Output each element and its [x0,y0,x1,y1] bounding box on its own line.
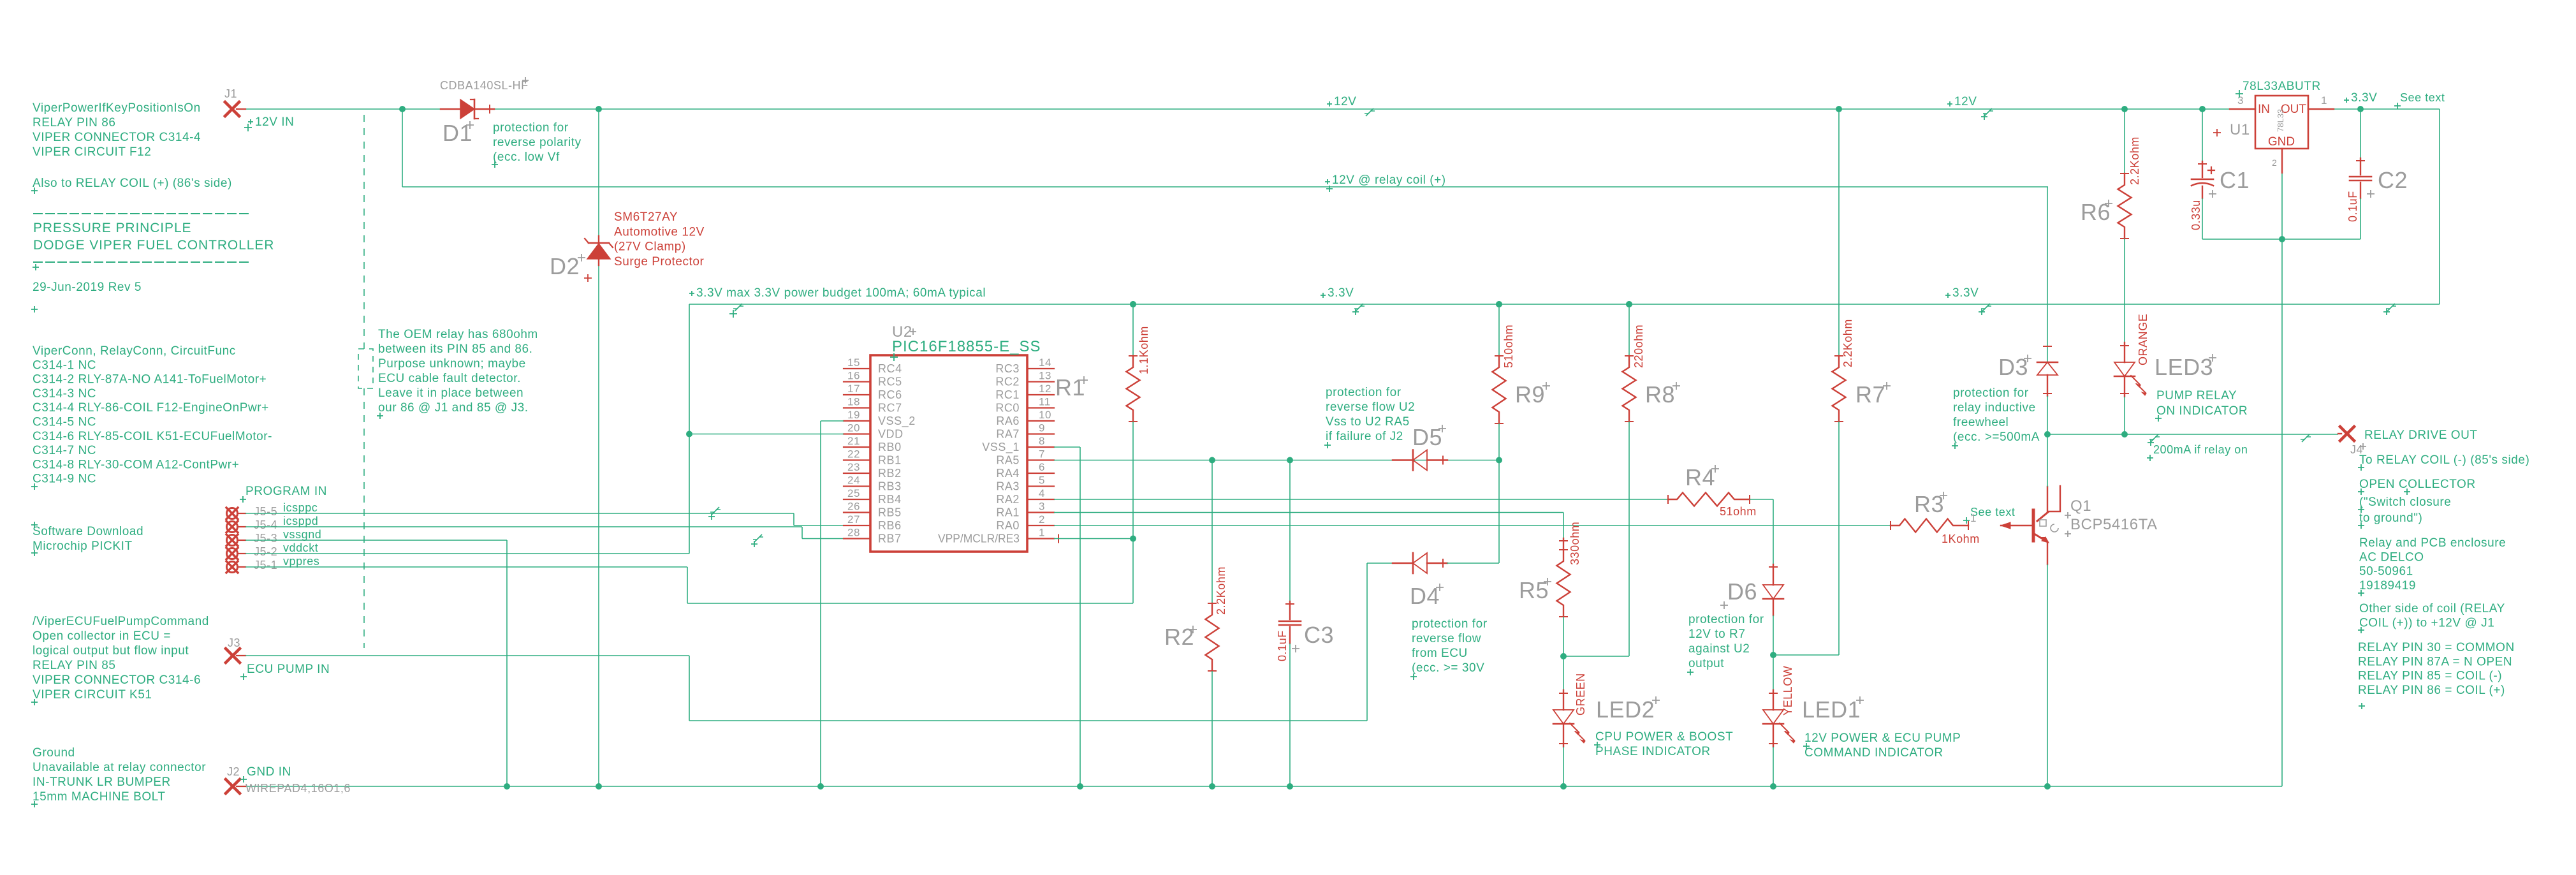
svg-text:icsppc: icsppc [283,501,318,514]
svg-text:protection for: protection for [1688,613,1764,626]
svg-text:RB2: RB2 [878,467,902,480]
svg-text:C314-2 RLY-87A-NO A141-ToFue: C314-2 RLY-87A-NO A141-ToFuelMotor+ [33,373,267,386]
svg-text:2.2Kohm: 2.2Kohm [1841,319,1854,367]
U2 pin 22 RB1 [844,459,870,460]
junction GND/VSS_1 [1077,783,1083,790]
svg-text:3.3V max 3.3V power budget 10: 3.3V max 3.3V power budget 100mA; 60mA t… [696,286,986,300]
svg-text:J5-2: J5-2 [254,545,277,558]
svg-text:2.2Kohm: 2.2Kohm [2128,136,2141,185]
net label 12V @ relay coil [1325,179,1330,184]
svg-text:0.33u: 0.33u [2190,200,2202,230]
net label 3.3V right [1945,293,1950,298]
junction MCLR/R1/vppres [1130,536,1136,542]
svg-text:D1: D1 [443,120,472,146]
junction GND/vssgnd [504,783,510,790]
wire VDD pin20 to 3.3V [689,434,844,435]
svg-text:25: 25 [847,487,860,499]
svg-text:50-50961: 50-50961 [2359,565,2413,578]
svg-text:8: 8 [1039,435,1045,447]
net label +12V left [1327,101,1332,107]
svg-text:C314-4 RLY-86-COIL F12-Engin: C314-4 RLY-86-COIL F12-EngineOnPwr+ [33,401,269,415]
svg-text:vssgnd: vssgnd [283,528,321,541]
svg-text:AC DELCO: AC DELCO [2359,550,2424,564]
svg-text:J5-4: J5-4 [254,518,277,531]
svg-text:(27V Clamp): (27V Clamp) [614,240,686,254]
svg-text:icsppd: icsppd [283,515,318,527]
svg-text:VPP/MCLR/RE3: VPP/MCLR/RE3 [938,533,1020,545]
junction 3.3V/R1 [1130,301,1136,307]
svg-text:D2: D2 [550,253,580,279]
svg-text:3.3V: 3.3V [1952,286,1979,300]
U2 pin 28 RB7 [844,538,870,539]
U2 pin 7 RA5 [1027,459,1054,460]
svg-text:13: 13 [1039,370,1051,382]
svg-text:LED2: LED2 [1596,696,1655,723]
capacitor C2 0.1uF [2360,109,2361,158]
svg-text:The OEM relay has 680ohm: The OEM relay has 680ohm [378,328,538,341]
svg-text:protection for: protection for [1326,386,1401,399]
junction GND/LED1 [1770,783,1776,790]
wire icsppd to RB7 pin28 [245,526,802,527]
svg-text:Microchip PICKIT: Microchip PICKIT [33,540,133,553]
wire RA1 pin3 to R5 [1054,512,1563,513]
IC U2 PIC16F18855 box [870,355,1027,552]
svg-text:OPEN COLLECTOR: OPEN COLLECTOR [2359,478,2476,491]
svg-text:330ohm: 330ohm [1569,522,1581,565]
svg-text:12: 12 [1039,383,1051,395]
junction 12V/R6 [2121,106,2128,112]
U2 pin 14 RC3 [1027,368,1054,369]
junction 3.3V/R8 [1626,301,1632,307]
svg-text:J5-3: J5-3 [254,532,277,545]
svg-text:reverse flow U2: reverse flow U2 [1326,401,1415,414]
svg-text:RC3: RC3 [995,362,1020,375]
svg-text:ON INDICATOR: ON INDICATOR [2156,404,2248,418]
junction 12V/D1 loop left [399,106,406,112]
resistor R5 330ohm [1563,538,1564,550]
svg-text:LED1: LED1 [1802,696,1861,723]
svg-text:PRESSURE PRINCIPLE: PRESSURE PRINCIPLE [33,221,191,235]
svg-text:R1: R1 [1055,374,1085,401]
svg-text:220ohm: 220ohm [1632,325,1645,368]
svg-text:PHASE INDICATOR: PHASE INDICATOR [1595,745,1711,758]
svg-text:Purpose unknown; maybe: Purpose unknown; maybe [378,357,526,371]
svg-text:12V: 12V [1334,95,1356,108]
svg-text:10: 10 [1039,409,1051,421]
svg-text:("Switch closure: ("Switch closure [2359,496,2451,509]
wire 12V-to-relay-coil bypass left drop [402,109,403,187]
connector pin J5-4 icsppd [227,522,238,533]
svg-text:22: 22 [847,448,860,460]
net label 3.3V far right jog [2386,304,2396,311]
svg-text:RC4: RC4 [878,362,902,375]
svg-text:12V: 12V [1954,95,1977,108]
svg-text:3: 3 [1039,501,1045,513]
connector pin J5-1 vppres [227,562,238,573]
resistor R1 1.1Kohm MCLR pullup [1132,304,1134,356]
svg-text:GREEN: GREEN [1574,673,1587,716]
svg-text:GND: GND [2268,135,2295,149]
diode D2 SM6T27AY TVS [598,236,599,243]
wire D1 bypass right drop [598,109,599,786]
svg-text:reverse flow: reverse flow [1412,632,1481,645]
LED LED2 green CPU power indicator [1563,656,1564,690]
svg-text:BCP5416TA: BCP5416TA [2070,516,2158,533]
U2 pin 6 RA4 [1027,473,1054,474]
net label +12V right [1947,101,1952,107]
svg-text:output: output [1688,657,1724,670]
svg-text:Other side of coil (RELAY: Other side of coil (RELAY [2359,602,2505,615]
svg-text:C314-9 NC: C314-9 NC [33,473,96,486]
svg-text:RA3: RA3 [996,480,1020,493]
svg-text:1.1Kohm: 1.1Kohm [1138,326,1150,374]
junction GND/D2 [596,783,602,790]
svg-text:protection for: protection for [1412,617,1488,631]
svg-text:(ecc. low Vf: (ecc. low Vf [493,151,560,164]
wire vddckt to 3.3V [245,553,689,554]
svg-text:Automotive 12V: Automotive 12V [614,225,705,239]
diode D5 reverse flow protection [1393,459,1413,460]
wire GND rail [245,786,2282,787]
svg-text:RELAY PIN 30 = COMMON: RELAY PIN 30 = COMMON [2358,641,2515,654]
svg-text:3.3V: 3.3V [2351,91,2377,105]
junction 12V/D2 [596,106,602,112]
svg-text:RA2: RA2 [996,493,1020,506]
junction LED1 anode node [1770,652,1776,658]
wire U1 GND drop [2281,173,2283,786]
svg-text:J2: J2 [227,765,240,778]
capacitor C1 0.33u polarized [2202,109,2203,161]
svg-text:12V @ relay coil (+): 12V @ relay coil (+) [1332,173,1446,187]
svg-text:DODGE VIPER FUEL CONTROLLER: DODGE VIPER FUEL CONTROLLER [33,238,274,253]
U2 pin 10 RA6 [1027,420,1054,422]
svg-text:R9: R9 [1515,381,1545,408]
svg-text:R2: R2 [1164,624,1194,650]
svg-text:CPU POWER & BOOST: CPU POWER & BOOST [1595,730,1733,744]
svg-text:J3: J3 [228,636,240,649]
svg-text:Q1: Q1 [2070,497,2091,515]
wire RA2 pin4 to R4 [1054,499,1668,500]
svg-text:1: 1 [1039,527,1045,539]
svg-text:vppres: vppres [283,555,319,568]
svg-text:To RELAY COIL (-) (85's side): To RELAY COIL (-) (85's side) [2359,453,2529,467]
svg-text:200mA if relay on: 200mA if relay on [2153,443,2248,456]
transistor Q1 BCP5416TA [2001,525,2032,526]
net label 3.3V mid [1321,293,1326,298]
connector J3 ECU PUMP IN [226,649,240,663]
resistor R3 1Kohm base resistor [1891,519,1968,533]
svg-text:to ground"): to ground") [2359,511,2422,525]
svg-text:VIPER CIRCUIT K51: VIPER CIRCUIT K51 [33,688,152,702]
svg-text:RB4: RB4 [878,493,902,506]
connector J2 GND IN [226,779,240,793]
svg-text:PIC16F18855-E_SS: PIC16F18855-E_SS [892,338,1041,355]
U2 pin 2 RA0 [1027,525,1054,526]
U2 pin 9 RA7 [1027,433,1054,434]
wire +12V rail [245,108,2230,110]
junction R9/D5 node [1496,457,1502,464]
svg-text:RELAY PIN 85: RELAY PIN 85 [33,659,116,672]
svg-text:RB7: RB7 [878,533,902,545]
svg-text:RC0: RC0 [995,402,1020,415]
svg-text:5: 5 [1039,474,1045,487]
svg-text:/ViperECUFuelPumpCommand: /ViperECUFuelPumpCommand [33,615,209,628]
diode D3 relay freewheel [2047,344,2048,362]
wire ECU pump net J3 to D4 [245,655,689,656]
dashed OEM relay line upper [363,115,365,349]
svg-text:VSS_1: VSS_1 [982,441,1020,454]
svg-text:2: 2 [2272,158,2277,168]
U2 pin 15 RC4 [844,368,870,369]
net label 3.3V at U1 out [2344,98,2349,103]
svg-text:ViperConn, RelayConn, CircuitF: ViperConn, RelayConn, CircuitFunc [33,344,236,358]
svg-text:between its PIN 85 and 86.: between its PIN 85 and 86. [378,342,532,356]
diode D1 CDBA140SL-HF schottky [441,108,460,110]
U2 pin 24 RB3 [844,485,870,487]
svg-text:RELAY PIN 86: RELAY PIN 86 [33,116,116,129]
wire 3.3V regulator output drop [2439,109,2440,304]
LED LED3 orange pump relay indicator [2124,342,2125,362]
svg-text:12V IN: 12V IN [255,115,294,129]
junction GND/C3 [1287,783,1293,790]
U2 pin 1 VPP/MCLR/RE3 [1027,538,1054,539]
svg-text:1: 1 [2321,94,2327,107]
svg-text:510ohm: 510ohm [1502,325,1515,368]
svg-text:vddckt: vddckt [283,541,318,554]
dashed OEM relay line lower [363,388,365,648]
U2 pin 20 VDD [844,433,870,434]
svg-text:21: 21 [847,435,860,447]
dashed OEM relay coil box [358,349,373,388]
U2 pin 11 RC0 [1027,407,1054,408]
svg-text:from ECU: from ECU [1412,647,1468,660]
svg-text:RB5: RB5 [878,506,902,519]
svg-text:20: 20 [847,422,860,434]
svg-text:D6: D6 [1727,578,1757,605]
svg-text:C1: C1 [2220,167,2250,193]
connector pin J5-5 icsppc [227,508,238,519]
svg-text:0.1uF: 0.1uF [2346,191,2359,222]
U2 pin 5 RA3 [1027,485,1054,487]
svg-text:16: 16 [847,370,860,382]
svg-text:RA4: RA4 [996,467,1020,480]
svg-text:0.1uF: 0.1uF [1276,630,1289,661]
diode D4 reverse flow from ECU [1367,562,1394,564]
svg-text:COMMAND INDICATOR: COMMAND INDICATOR [1804,746,1943,760]
svg-text:RC2: RC2 [995,376,1020,388]
svg-text:Leave it in place between: Leave it in place between [378,386,523,400]
note title separator bottom [33,261,249,263]
svg-text:RELAY DRIVE OUT: RELAY DRIVE OUT [2364,429,2478,442]
IC U1 78L33 regulator box [2255,96,2308,149]
svg-text:logical output but flow input: logical output but flow input [33,644,189,658]
svg-text:against U2: against U2 [1688,642,1750,656]
U1 pin 3 IN stub [2230,108,2255,110]
svg-text:IN: IN [2258,103,2270,116]
svg-text:RA6: RA6 [996,415,1020,427]
svg-text:protection for: protection for [1953,386,2029,400]
svg-text:PUMP RELAY: PUMP RELAY [2156,389,2237,402]
junction 12V/C1 [2199,106,2206,112]
wire +3.3V rail [689,304,2440,305]
svg-text:RB1: RB1 [878,454,902,467]
svg-text:RC7: RC7 [878,402,902,415]
svg-text:C314-8 RLY-30-COM A12-ContPw: C314-8 RLY-30-COM A12-ContPwr+ [33,458,239,471]
U2 pin 26 RB5 [844,511,870,513]
svg-text:PROGRAM IN: PROGRAM IN [245,485,327,498]
svg-text:ECU cable fault detector.: ECU cable fault detector. [378,372,521,385]
junction LED3/drive rail [2121,431,2128,437]
svg-text:RELAY PIN 85 = COIL (-): RELAY PIN 85 = COIL (-) [2358,670,2502,683]
U2 pin 8 VSS_1 [1027,446,1054,448]
junction U1 GND / cap tie [2279,236,2285,242]
wire Q1 emitter to GND [2047,564,2048,786]
wire VSS_1 pin8 to GND [1054,446,1080,448]
LED LED1 yellow 12V power indicator [1773,655,1774,690]
svg-text:IN-TRUNK LR BUMPER: IN-TRUNK LR BUMPER [33,776,171,789]
junction 3.3V out/C2 [2357,106,2364,112]
U2 pin 19 VSS_2 [844,420,870,422]
svg-text:relay inductive: relay inductive [1953,401,2036,415]
svg-text:78L33ABUTR: 78L33ABUTR [2243,80,2321,93]
svg-text:ORANGE: ORANGE [2137,314,2149,365]
svg-text:11: 11 [1039,396,1051,408]
svg-text:27: 27 [847,513,860,526]
svg-text:29-Jun-2019 Rev 5: 29-Jun-2019 Rev 5 [33,281,142,294]
connector pin J5-3 vssgnd [227,535,238,546]
svg-text:J5-1: J5-1 [254,559,277,571]
resistor R9 510ohm [1498,304,1500,356]
svg-text:reverse polarity: reverse polarity [493,136,582,149]
svg-text:C314-6 RLY-85-COIL K51-ECUFu: C314-6 RLY-85-COIL K51-ECUFuelMotor- [33,430,272,443]
svg-text:ViperPowerIfKeyPositionIsOn: ViperPowerIfKeyPositionIsOn [33,101,201,115]
U2 pin 18 RC7 [844,407,870,408]
svg-text:1: 1 [1970,512,1977,524]
svg-text:18: 18 [847,396,860,408]
svg-text:VDD: VDD [878,428,904,441]
junction 12V/R7 [1836,106,1842,112]
junction GND/LED2 [1560,783,1567,790]
junction 3.3V/R9 [1496,301,1502,307]
junction LED2 anode node [1560,653,1567,659]
svg-text:Vss to U2 RA5: Vss to U2 RA5 [1326,415,1410,429]
svg-text:Relay and PCB enclosure: Relay and PCB enclosure [2359,536,2506,550]
svg-text:78L33: 78L33 [2276,109,2285,132]
junction D3/drive rail [2044,431,2051,437]
svg-text:RA5: RA5 [996,454,1020,467]
connector pin J5-2 vddckt [227,548,238,559]
svg-text:LED3: LED3 [2155,354,2213,380]
svg-text:GND IN: GND IN [247,765,291,779]
svg-text:protection for: protection for [493,121,569,135]
svg-text:1Kohm: 1Kohm [1942,533,1980,545]
connector J4 RELAY DRIVE OUT [2338,433,2341,434]
junction RA5/R2 [1209,457,1215,464]
svg-text:RELAY PIN 87A = N OPEN: RELAY PIN 87A = N OPEN [2358,655,2512,668]
svg-text:4: 4 [1039,487,1045,499]
svg-text:SM6T27AY: SM6T27AY [614,210,678,224]
svg-text:RELAY PIN 86 = COIL (+): RELAY PIN 86 = COIL (+) [2358,684,2505,697]
svg-text:14: 14 [1039,357,1051,369]
svg-text:freewheel: freewheel [1953,416,2009,429]
U2 pin 17 RC6 [844,394,870,395]
capacitor C3 0.1uF [1289,460,1291,602]
svg-text:Open collector in ECU =: Open collector in ECU = [33,629,171,643]
svg-text:RA0: RA0 [996,519,1020,532]
svg-text:3: 3 [2237,94,2244,107]
svg-text:24: 24 [847,474,860,487]
U1 pin 2 GND stub [2281,149,2283,173]
svg-text:(ecc. >=500mA: (ecc. >=500mA [1953,430,2040,444]
U2 pin 3 RA1 [1027,511,1054,513]
net arrows icsppc icsppd [710,507,721,515]
svg-text:C314-3 NC: C314-3 NC [33,387,96,401]
svg-text:23: 23 [847,461,860,473]
svg-text:RA1: RA1 [996,506,1020,519]
svg-text:Ground: Ground [33,746,75,760]
svg-text:C3: C3 [1304,622,1334,648]
svg-text:D5: D5 [1412,424,1442,450]
svg-text:RC5: RC5 [878,376,902,388]
svg-text:D4: D4 [1410,583,1440,609]
svg-text:R7: R7 [1855,381,1885,408]
svg-text:U1: U1 [2230,121,2250,138]
svg-text:WIREPAD4,16O1,6: WIREPAD4,16O1,6 [245,782,351,795]
junction RA5/C3 [1287,457,1293,464]
svg-text:12V to R7: 12V to R7 [1688,628,1745,641]
svg-text:17: 17 [847,383,860,395]
svg-text:9: 9 [1039,422,1045,434]
svg-text:R8: R8 [1645,381,1675,408]
svg-text:(ecc. >= 30V: (ecc. >= 30V [1412,661,1484,675]
svg-text:Also to RELAY COIL (+) (86's s: Also to RELAY COIL (+) (86's side) [33,177,232,190]
U1 pin 1 OUT stub [2308,108,2334,110]
U2 pin 23 RB2 [844,473,870,474]
svg-text:VIPER CONNECTOR C314-6: VIPER CONNECTOR C314-6 [33,673,201,687]
wire vppres to MCLR net [245,566,687,568]
capacitor bottom tie wire [2202,239,2360,240]
junction GND/Q1 emitter [2044,783,2051,790]
svg-text:28: 28 [847,527,860,539]
svg-text:COIL (+)) to +12V @ J1: COIL (+)) to +12V @ J1 [2359,616,2494,629]
wire MCLR pin1 to R1 [1054,538,1133,540]
diode D6 12V to R7 protection [1773,564,1774,585]
svg-text:VSS_2: VSS_2 [878,415,916,428]
svg-text:51ohm: 51ohm [1720,505,1757,518]
U2 pin 13 RC2 [1027,381,1054,382]
svg-text:our 86 @ J1 and 85 @ J3.: our 86 @ J1 and 85 @ J3. [378,401,529,415]
svg-text:J5-5: J5-5 [254,505,277,518]
svg-text:Unavailable at relay connector: Unavailable at relay connector [33,761,206,774]
svg-text:RC6: RC6 [878,388,902,401]
svg-text:VIPER CIRCUIT F12: VIPER CIRCUIT F12 [33,145,151,159]
svg-text:3.3V: 3.3V [1328,286,1354,300]
svg-text:ECU PUMP IN: ECU PUMP IN [247,663,330,676]
wire RA0 pin2 to R3 [1054,525,1891,526]
wire 12V @ relay coil rail [402,186,2048,187]
svg-text:CDBA140SL-HF: CDBA140SL-HF [440,79,529,92]
svg-text:C314-5 NC: C314-5 NC [33,416,96,429]
svg-text:6: 6 [1039,461,1045,473]
resistor R2 2.2Kohm [1211,460,1213,604]
resistor R6 2.2Kohm LED3 series [2124,109,2125,173]
U2 pin 12 RC1 [1027,394,1054,395]
svg-text:Software Download: Software Download [33,525,143,538]
svg-text:C2: C2 [2378,167,2408,193]
wire RA5 pin7 net [1054,460,1499,461]
junction VDD/3.3V drop [686,431,692,437]
U2 pin 4 RA2 [1027,499,1054,500]
